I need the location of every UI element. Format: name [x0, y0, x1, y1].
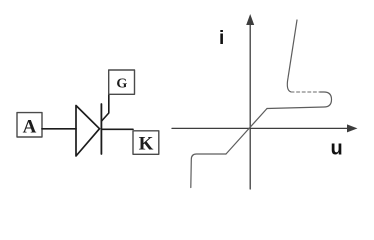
svg-text:A: A — [23, 117, 37, 138]
curve: negative-resistance dashed segment — [291, 91, 320, 93]
wire cathode to K — [101, 128, 133, 130]
thyristor V1 triangle (anode arrow) — [76, 106, 100, 157]
terminal box G (gate) — [109, 70, 135, 94]
svg-text:i: i — [219, 28, 224, 49]
i axis (vertical current axis with arrow) — [246, 14, 254, 189]
curve: reverse blocking branch (third quadrant) — [191, 154, 226, 188]
curve: on-state branch (first quadrant steep line) — [287, 20, 297, 92]
terminal box A (anode) — [17, 113, 42, 138]
thyristor V1 gate lead — [102, 95, 109, 122]
curve: breakover knee hook — [267, 92, 332, 109]
svg-text:G: G — [116, 77, 127, 92]
svg-text:u: u — [331, 138, 343, 160]
svg-text:K: K — [139, 133, 154, 154]
curve: off-state leakage line through origin — [226, 109, 267, 155]
u axis (horizontal voltage axis with arrow) — [172, 124, 358, 132]
terminal box K (cathode) — [133, 131, 159, 155]
wire anode A to thyristor — [42, 128, 76, 130]
thyristor V1 cathode bar — [100, 104, 102, 154]
